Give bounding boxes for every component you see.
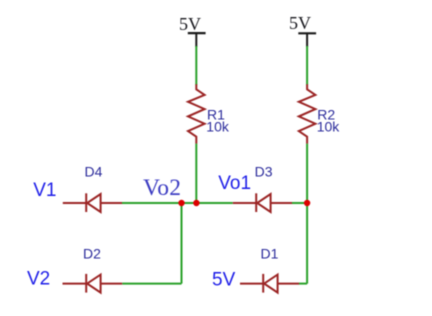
svg-text:5V: 5V	[212, 269, 236, 290]
resistor R2 10k	[299, 84, 340, 143]
svg-text:V2: V2	[27, 268, 50, 289]
diode D2	[63, 246, 123, 293]
svg-text:10k: 10k	[317, 119, 341, 135]
wire (junction B to D3)	[196, 202, 233, 204]
junction B (R1 column)	[193, 200, 199, 206]
svg-text:D1: D1	[261, 246, 279, 262]
wire (right column, R2 to node Vo1)	[306, 144, 308, 203]
resistor R1 10k	[188, 84, 230, 143]
svg-text:D3: D3	[255, 163, 273, 179]
wire (D3 to junction C)	[292, 202, 307, 204]
svg-text:D2: D2	[83, 246, 101, 262]
diode D3	[233, 163, 292, 212]
power symbol 5V (left)	[179, 14, 206, 47]
wire (junction A to junction B)	[182, 202, 197, 204]
wire (D4 to junction A)	[122, 202, 182, 204]
svg-text:Vo1: Vo1	[218, 173, 251, 194]
power symbol 5V (right)	[289, 13, 316, 47]
diode D4	[63, 164, 122, 212]
wire (left column, 5V to R1)	[195, 46, 197, 85]
svg-text:Vo2: Vo2	[143, 175, 181, 201]
svg-text:5V: 5V	[289, 13, 311, 33]
svg-text:5V: 5V	[179, 14, 201, 34]
wire (right column, node Vo1 down to D1 corner)	[306, 203, 308, 284]
wire (left column, R1 to node Vo2)	[195, 144, 197, 203]
junction A (node Vo2)	[178, 200, 184, 206]
junction C (node Vo1)	[304, 200, 310, 206]
svg-text:10k: 10k	[206, 119, 230, 135]
wire (junction A down to D2 row)	[181, 203, 183, 284]
wire (D1 to right column corner)	[299, 283, 307, 285]
svg-text:V1: V1	[33, 180, 56, 201]
svg-text:D4: D4	[85, 164, 103, 180]
diode D1	[240, 246, 299, 293]
wire (D2 to vertical drop)	[122, 283, 181, 285]
wire (right column, 5V to R2)	[306, 46, 308, 85]
